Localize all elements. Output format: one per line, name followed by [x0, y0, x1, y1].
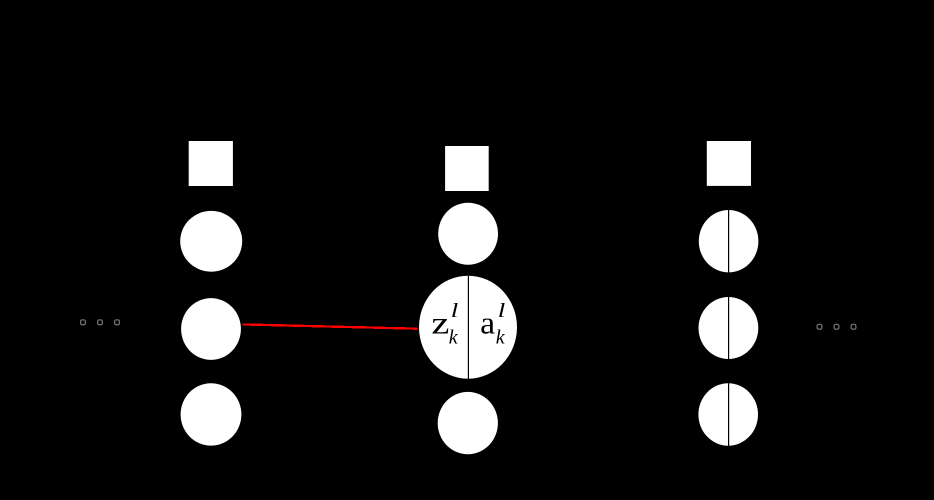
- bias square layer l: [445, 146, 489, 191]
- divider line l+1 unit 2: [728, 297, 730, 360]
- svg-text:l: l: [498, 300, 506, 322]
- neuron layer l+1 unit 1 (split): [699, 210, 759, 272]
- neuron layer l unit 1: [438, 203, 498, 265]
- ellipsis dot left 1: [81, 320, 86, 325]
- neuron layer l-1 unit 3: [181, 383, 242, 445]
- neuron layer l unit k (enlarged, split z|a): [419, 276, 517, 379]
- ellipsis dot right 2: [834, 324, 839, 329]
- neuron layer l-1 unit 1: [180, 211, 242, 272]
- svg-text:z: z: [431, 305, 449, 341]
- neuron layer l+1 unit 2 (split): [699, 297, 759, 359]
- divider line l+1 unit 1: [728, 210, 730, 273]
- neuron layer l+1 unit 3 (split): [698, 383, 758, 445]
- svg-text:a: a: [480, 305, 495, 341]
- ellipsis dot left 3: [115, 320, 120, 325]
- neuron layer l-1 unit 2: [181, 298, 241, 360]
- bias square layer l-1: [189, 141, 233, 186]
- ellipsis dot right 3: [851, 324, 856, 329]
- red highlighted connection w from layer l-1 neuron to z_k^l: [242, 324, 417, 328]
- neuron layer l unit last: [438, 392, 498, 454]
- ellipsis dot left 2: [98, 320, 103, 325]
- divider line of unit k: [467, 276, 469, 382]
- svg-text:k: k: [449, 326, 459, 348]
- ellipsis dot right 1: [817, 324, 822, 329]
- bias square layer l+1: [707, 141, 751, 186]
- svg-text:l: l: [451, 300, 459, 322]
- divider line l+1 unit 3: [728, 383, 730, 446]
- svg-text:k: k: [496, 326, 506, 348]
